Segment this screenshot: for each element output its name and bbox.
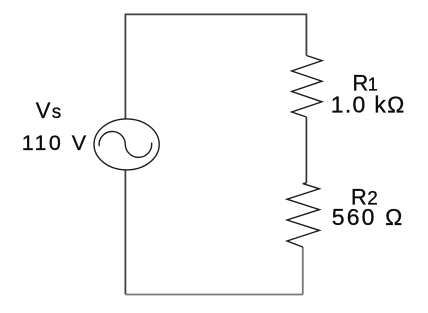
wire top from source to R1 branch — [125, 14, 306, 119]
wire bottom return — [125, 294, 302, 296]
svg-text:V: V — [36, 98, 51, 123]
resistor R1 — [292, 56, 322, 118]
svg-text:1.0 kΩ: 1.0 kΩ — [331, 92, 405, 118]
svg-text:110 V: 110 V — [22, 131, 87, 155]
resistor R2 — [287, 183, 319, 247]
AC voltage source VS circle — [94, 119, 159, 170]
wire left vertical below source — [124, 170, 126, 295]
wire between R1 and R2 — [305, 117, 307, 183]
svg-text:560 Ω: 560 Ω — [332, 204, 403, 230]
wire from R2 to bottom return — [302, 247, 304, 295]
svg-text:s: s — [52, 102, 62, 123]
AC source sine wave — [99, 131, 152, 157]
